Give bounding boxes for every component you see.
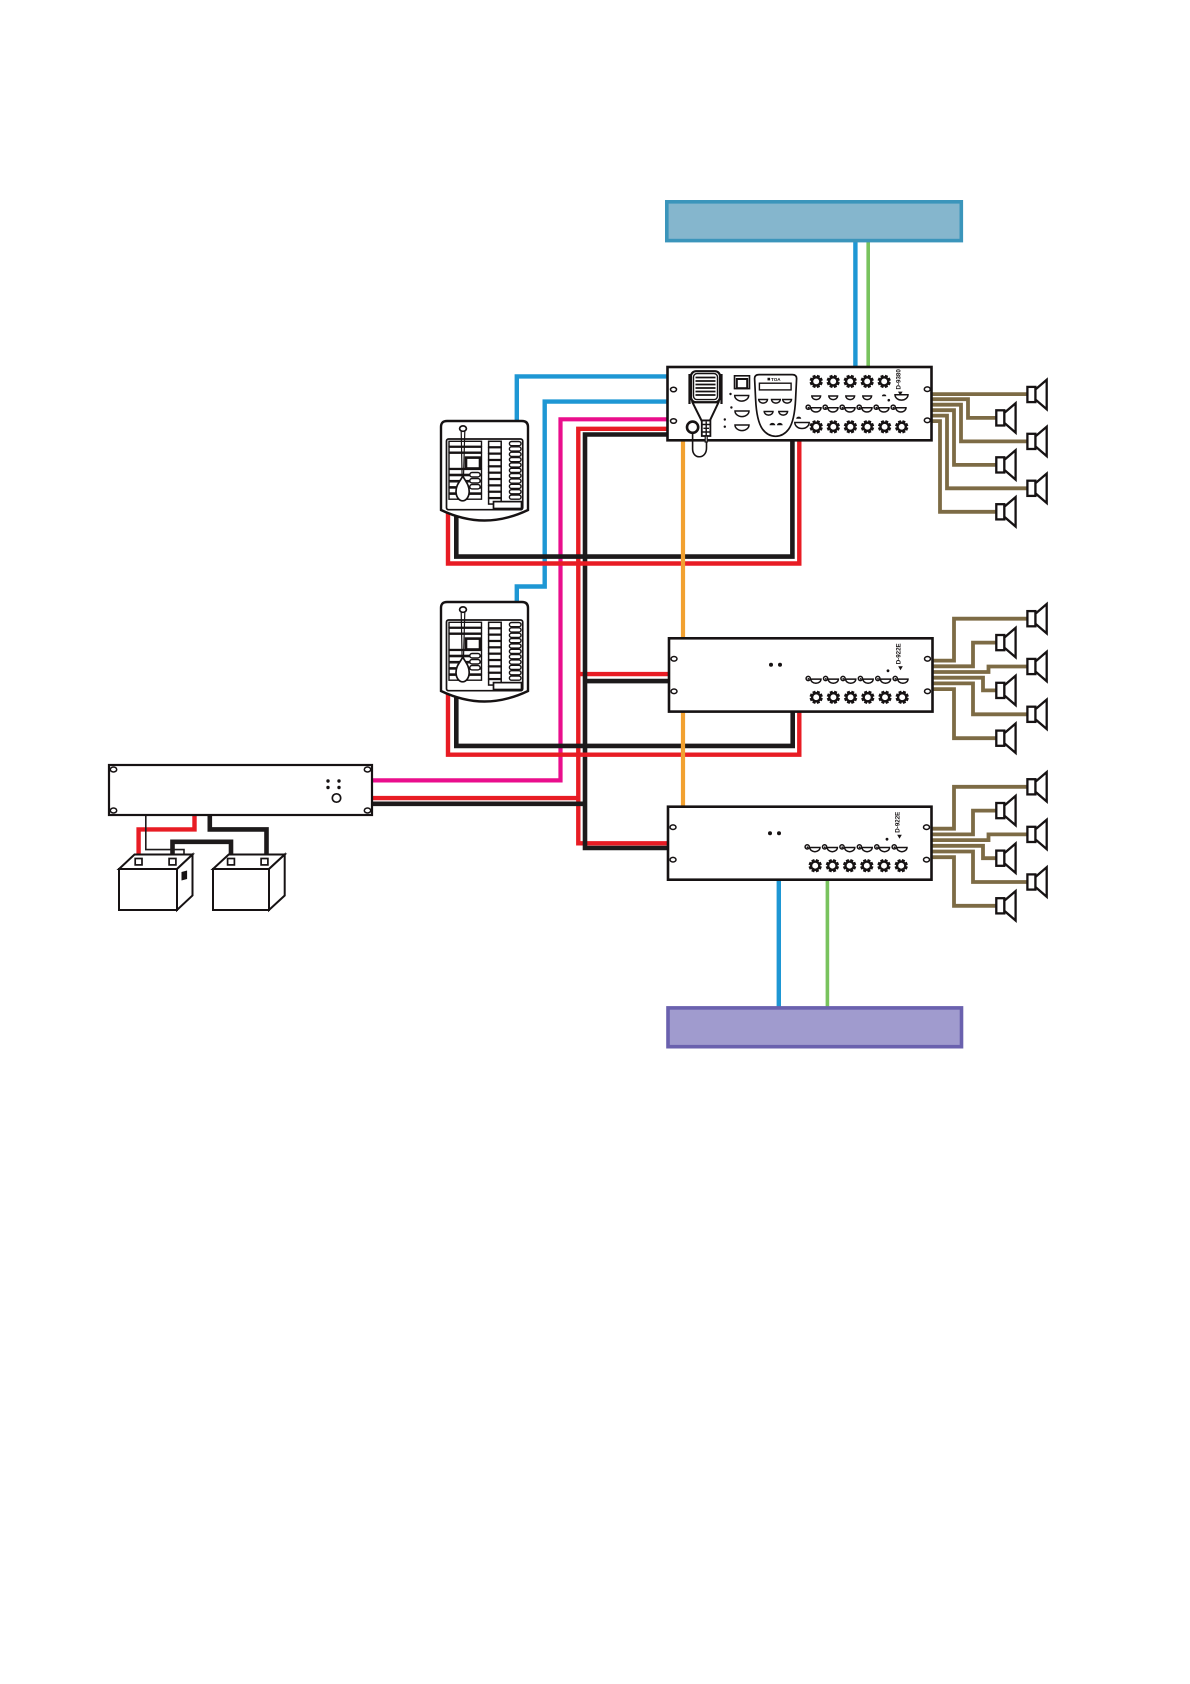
svg-text:D-9380: D-9380	[895, 369, 902, 390]
svg-text:TOA: TOA	[771, 377, 781, 382]
